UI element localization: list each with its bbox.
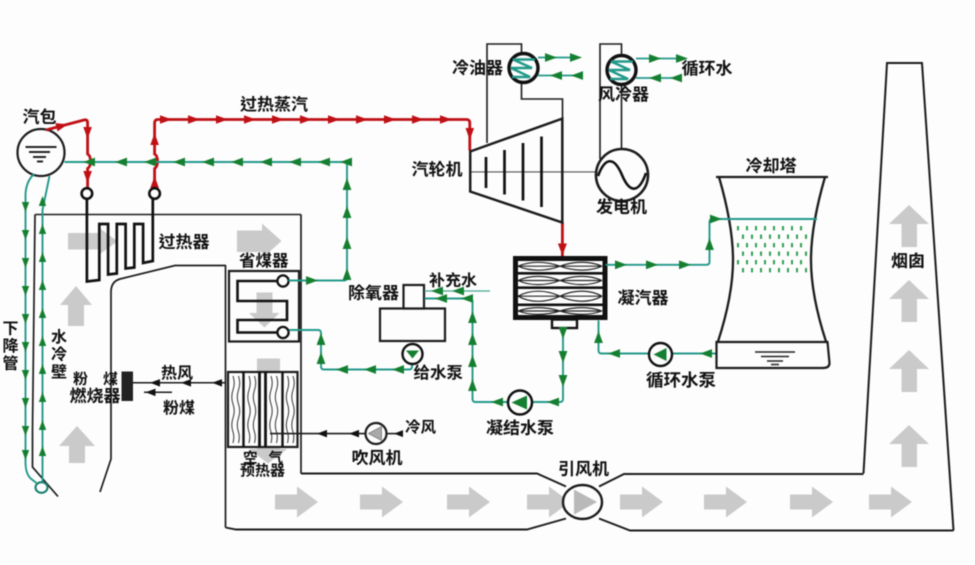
label 过热器 (superheater): [159, 233, 210, 249]
condenser hotwell box: [552, 320, 577, 329]
air cooler (feng leng qi): [607, 56, 636, 85]
condensate line condenser to deaerator: [425, 299, 564, 403]
cooling water condenser to tower: [606, 219, 815, 265]
back-pass left wall: [225, 266, 227, 528]
feed pump (gei shui beng): [403, 344, 423, 364]
label 冷油器 (oil cooler): [452, 59, 502, 75]
label 预热器 (preheater): [240, 463, 284, 477]
chimney: [864, 63, 954, 531]
label 给水泵 (feed pump): [414, 364, 463, 380]
label 水冷壁 (water wall): [51, 329, 66, 344]
label 循环水泵 (circulating water pump): [646, 371, 715, 387]
label 燃烧器 (burner): [70, 387, 120, 403]
generator (fa dian ji): [596, 149, 648, 201]
superheater coil: [87, 199, 153, 282]
label 冷风 (cold air): [405, 419, 435, 434]
label 吹风机 (blower): [353, 449, 403, 465]
air preheater box: [228, 372, 298, 447]
back-pass right wall: [300, 215, 302, 474]
flue gas arrow right above economizer: [237, 224, 282, 259]
turbine exhaust steam to condenser: [561, 223, 564, 257]
bottom header loop: [36, 482, 48, 493]
boiler left wall and hopper slant: [33, 215, 59, 497]
label 凝汽器 (condenser): [618, 289, 668, 305]
tower water distribution line: [724, 218, 817, 220]
economizer bottom header circle: [277, 327, 288, 338]
generator piping to air cooler: [600, 44, 622, 159]
oil cooler (leng you qi): [509, 54, 538, 83]
oil cooler cooling water in: [538, 75, 578, 77]
label 除氧器 (deaerator): [349, 284, 399, 300]
cooling water tower to condenser: [599, 321, 717, 354]
tower basin: [717, 342, 830, 368]
downcomer pipe: [26, 174, 37, 483]
flue gas down arrow in economizer: [249, 293, 280, 328]
deaerator (chu yang qi): [380, 309, 445, 342]
label 粉煤 (pulverized coal): [163, 400, 194, 415]
flue gas down arrow through air preheater: [249, 359, 287, 464]
blower (chui feng ji): [366, 423, 387, 444]
turbine shaft line: [470, 171, 596, 173]
water wall riser: [43, 176, 50, 482]
superheated steam line to turbine: [155, 120, 470, 189]
label 煤 (coal row1 char2): [103, 371, 117, 385]
label 气 (air char2): [269, 450, 283, 464]
label 过热蒸汽 (superheated steam): [240, 96, 307, 112]
cold air stub: [387, 433, 403, 435]
label 空 (air char1): [244, 450, 257, 463]
circulating water pump (xun huan shui beng): [649, 343, 672, 366]
flue gas up arrow furnace middle: [60, 286, 92, 326]
label 风冷器 (air cooler): [598, 86, 648, 102]
label 冷却塔 (cooling tower): [746, 157, 796, 173]
air preheater internal plates: [232, 376, 294, 443]
label 热风 (hot air): [162, 365, 193, 380]
saturated steam line from drum to superheater valve: [46, 120, 91, 188]
label 引风机 (induced draft fan): [559, 460, 609, 476]
label 汽包 (steam drum): [23, 108, 56, 124]
economizer top header circle: [277, 275, 288, 286]
flue gas up arrows in chimney: [889, 205, 929, 247]
label 粉 (coal row1 char1): [73, 371, 87, 385]
condensate pump (ning jie shui beng): [508, 391, 532, 415]
steam turbine (qi lun ji): [470, 119, 562, 223]
pulverized coal burner block: [122, 372, 134, 402]
spray droplets: [738, 226, 806, 272]
pulverized coal line: [144, 391, 172, 393]
oil cooler piping: [487, 44, 563, 143]
label 循环水 (circulating water): [682, 60, 732, 76]
label 补充水 (makeup water): [429, 272, 476, 287]
label 汽轮机 (steam turbine): [412, 161, 462, 177]
economizer coil: [238, 281, 288, 333]
furnace inner right wall: [100, 266, 226, 493]
label 凝结水泵 (condensate pump): [486, 419, 553, 435]
flue duct top edge with venturi pinch: [301, 474, 566, 487]
oil cooler cooling water out: [538, 57, 580, 59]
air cooler cooling water in: [636, 77, 681, 79]
label 下降管 (downcomer): [3, 321, 17, 335]
flue gas arrow right in crossover pass: [68, 227, 118, 256]
boiler top edge: [35, 214, 301, 216]
label 发电机 (generator): [596, 198, 646, 214]
makeup water line: [425, 290, 491, 292]
flue gas up arrow furnace lower: [59, 426, 95, 463]
label 烟囱 (chimney): [891, 252, 923, 268]
induced draft fan (yin feng ji): [563, 485, 602, 519]
cold air line from preheater to blower: [270, 433, 365, 435]
flue duct bottom edge with venturi pinch: [226, 519, 567, 530]
cooling tower shell: [716, 177, 828, 342]
condenser (ning qi qi): [516, 259, 606, 318]
economizer box: [229, 271, 299, 342]
superheater outlet valve: [149, 188, 160, 199]
flue gas arrows in bottom duct: [275, 487, 318, 518]
label 省煤器 (economizer): [239, 252, 288, 268]
feedwater line pump to economizer: [411, 345, 413, 364]
hot air line to burner: [133, 382, 226, 384]
air cooler cooling water out: [636, 58, 686, 60]
feedwater line economizer to drum: [65, 162, 348, 281]
steam drum (qi bao): [18, 129, 65, 176]
superheater inlet valve: [82, 188, 93, 199]
